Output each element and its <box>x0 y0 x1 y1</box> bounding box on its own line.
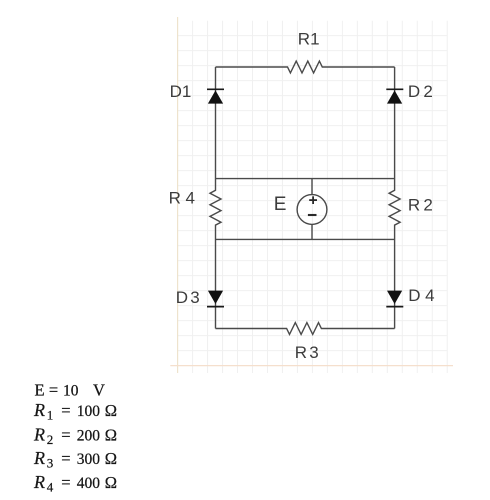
svg-text:E: E <box>274 194 287 215</box>
svg-text:R3: R3 <box>295 343 321 362</box>
svg-text:D2: D2 <box>408 82 436 101</box>
svg-text:D1: D1 <box>170 82 192 101</box>
svg-text:D3: D3 <box>176 288 202 307</box>
svg-text:R1: R1 <box>298 30 320 49</box>
svg-text:R2: R2 <box>408 196 436 215</box>
svg-text:R4: R4 <box>169 189 200 208</box>
svg-text:D4: D4 <box>408 286 439 305</box>
